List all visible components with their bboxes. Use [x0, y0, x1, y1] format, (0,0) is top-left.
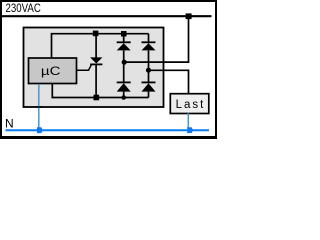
diode D1 bridge top-left	[123, 34, 125, 44]
thyristor V1	[95, 34, 97, 58]
diode D4 bridge bottom-right	[148, 70, 150, 83]
svg-text:230VAC: 230VAC	[6, 3, 41, 15]
wire enclosure border over blue crossing	[36, 106, 42, 108]
wire blue load to N	[187, 113, 189, 130]
wire gate from uC	[77, 65, 92, 70]
wire AC1 to mains vertical	[124, 16, 189, 62]
diode D2 bridge top-right	[148, 34, 150, 44]
node top rail / left column	[121, 31, 127, 37]
svg-text:Last: Last	[176, 99, 206, 111]
node thyristor cathode junction	[94, 95, 100, 101]
wire uC bottom pin to bottom rail	[52, 84, 148, 98]
microcontroller U1	[29, 58, 77, 84]
node bottom rail / left column	[121, 95, 126, 100]
svg-text:N: N	[5, 117, 14, 131]
node thyristor anode junction	[93, 31, 99, 37]
wire 230VAC rail	[2, 15, 212, 17]
wire N rail	[6, 129, 210, 131]
load box Last	[170, 94, 209, 114]
node AC2 right column mid	[146, 68, 151, 73]
node AC1 left column mid	[122, 60, 127, 65]
node mains junction	[186, 13, 192, 19]
wire internal top rail	[52, 34, 149, 58]
diode D3 bridge bottom-left	[123, 62, 125, 83]
svg-text:µC: µC	[41, 64, 61, 78]
wire AC2 to load	[149, 70, 189, 93]
wire blue uC to N	[38, 84, 40, 130]
node N / load junction	[187, 127, 193, 133]
enclosure box	[24, 28, 164, 108]
node N / uC junction	[37, 127, 43, 133]
